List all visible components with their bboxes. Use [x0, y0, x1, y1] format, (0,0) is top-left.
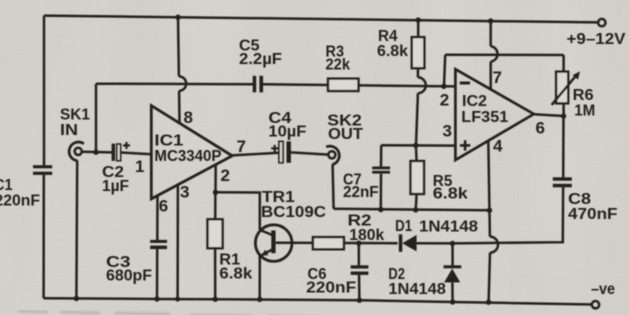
svg-text:220nF: 220nF: [0, 193, 40, 210]
wire: IC2 pin3 horizontal: [381, 144, 455, 147]
preset R6 1M: [556, 72, 568, 104]
op-amp IC2 LF351: [455, 69, 533, 160]
svg-text:OUT: OUT: [328, 126, 363, 143]
wire: C5 through R3 to IC2 pin2: [263, 84, 455, 86]
capacitor C5: [253, 76, 263, 93]
wire: output node to C8: [562, 116, 565, 177]
minus symbol of IC2: [460, 82, 470, 85]
IC2 pin numbers: [440, 68, 545, 156]
node: R5 / ground line: [413, 207, 418, 212]
wire: R1 bottom lead: [214, 248, 217, 299]
wire: feedback horizontal to R6: [445, 54, 563, 57]
svg-text:6.8k: 6.8k: [433, 185, 468, 202]
wire: C6 bottom lead: [358, 275, 361, 300]
wire: +9-12V top supply rail: [44, 16, 598, 23]
socket SK2: [328, 151, 335, 158]
IC1 pin numbers: [135, 108, 246, 216]
label R1 value: [219, 252, 252, 283]
wire: D1 to D2 node and C8 corner: [417, 187, 563, 243]
svg-text:2.2µF: 2.2µF: [239, 51, 282, 68]
svg-text:–ve: –ve: [591, 281, 615, 298]
svg-text:22k: 22k: [326, 57, 351, 74]
wire: left supply rail upper (to C1): [43, 16, 46, 166]
wire: input top horizontal to C5: [96, 82, 253, 85]
resistor R3: [328, 79, 359, 91]
label C8 value: [568, 191, 618, 223]
capacitor C2 (electrolytic): [112, 144, 116, 161]
capacitor C8: [553, 177, 572, 187]
svg-text:7: 7: [493, 68, 502, 87]
resistor R4: [417, 20, 420, 37]
svg-text:1: 1: [135, 157, 144, 176]
svg-text:2: 2: [221, 166, 230, 185]
node: output junction: [561, 113, 566, 118]
wire: IC1 pin3 drop to -ve rail: [176, 184, 179, 299]
svg-text:22nF: 22nF: [343, 184, 379, 201]
svg-text:10µF: 10µF: [268, 123, 306, 140]
terminal +9-12V: [598, 19, 605, 26]
resistor R1: [208, 219, 223, 248]
svg-text:LF351: LF351: [461, 109, 508, 126]
wire: IC1 pin8 lead from rail (with hop): [177, 17, 180, 76]
svg-text:6: 6: [536, 119, 545, 138]
node: pin2/R1/TR1 junction: [213, 190, 218, 195]
svg-text:6: 6: [159, 197, 168, 216]
capacitor C6: [351, 265, 369, 275]
capacitor C7: [380, 145, 383, 166]
wire: C6 top lead: [358, 243, 361, 265]
transistor TR1 BC109C: [255, 225, 292, 262]
capacitor C3: [150, 240, 167, 249]
label IC2 LF351: [461, 93, 508, 126]
svg-text:2: 2: [440, 91, 449, 110]
wire: left rail lower (C1 to -ve rail): [42, 175, 45, 298]
node: input junction: [93, 150, 98, 155]
wire: IC2 pin7 lead from rail (with hop): [489, 21, 492, 46]
svg-text:MC3340P: MC3340P: [154, 148, 221, 165]
node: top rail / R4: [416, 17, 421, 22]
label C6 value: [306, 266, 356, 297]
label C1 value: [0, 177, 40, 210]
svg-text:1M: 1M: [574, 102, 595, 119]
label D1 value: [395, 218, 478, 236]
svg-text:+9–12V: +9–12V: [567, 31, 626, 48]
svg-text:7: 7: [237, 137, 246, 156]
label R6 value: [573, 87, 596, 119]
socket SK1: [75, 148, 82, 155]
label C7 value: [343, 171, 379, 201]
label R2 value: [348, 213, 385, 244]
svg-text:4: 4: [493, 137, 503, 156]
wire: C4 to SK2 tip: [291, 152, 329, 154]
svg-text:IC2: IC2: [462, 93, 487, 110]
node: ground line / pin4: [487, 208, 492, 213]
wire: R6 top lead: [562, 55, 565, 72]
svg-text:D1: D1: [395, 218, 412, 235]
wire: IC1 pin6 drop to C3: [156, 196, 159, 240]
svg-text:220nF: 220nF: [306, 279, 356, 296]
label SK2 OUT: [327, 113, 363, 144]
scan artifacts at bottom edge: [18, 311, 388, 315]
junction dots on -ve rail: [74, 296, 492, 305]
label R5 value: [433, 173, 468, 202]
terminal -ve: [592, 301, 599, 308]
wire: junction to TR1 collector: [216, 192, 260, 230]
wire: C3 bottom lead: [156, 249, 159, 299]
polarity + of C2: [123, 142, 130, 149]
label R4 value: [377, 28, 408, 60]
node: top rail / pin8: [175, 15, 180, 20]
wire: -ve bottom rail: [44, 298, 593, 304]
svg-text:IN: IN: [60, 122, 78, 139]
svg-text:C1: C1: [0, 177, 13, 194]
wire: IC2 pin4 lead to -ve rail (with hop): [488, 141, 490, 237]
capacitor C1: [33, 165, 52, 175]
node: D1/D2 junction: [450, 241, 455, 246]
label C2 value: [102, 164, 129, 195]
svg-text:SK1: SK1: [60, 107, 90, 124]
wire: TR1 base to R2: [276, 241, 313, 244]
wire: SK1 tip to C2: [82, 150, 112, 153]
wire: R6 bottom lead: [562, 103, 565, 116]
label SK1 IN: [60, 107, 90, 140]
capacitor C4 (electrolytic): [279, 141, 283, 162]
svg-text:6.8k: 6.8k: [219, 266, 252, 283]
svg-text:470nF: 470nF: [568, 206, 618, 223]
label C5 value: [239, 37, 282, 68]
wire: C2 to IC1 pin1: [121, 153, 152, 155]
svg-text:180k: 180k: [349, 227, 384, 244]
wire: SK2 sleeve down and right to IC2 pin4 line: [333, 164, 334, 208]
wire: SK1 sleeve to -ve rail: [75, 161, 78, 299]
node: R4/R5/pin3 junction: [413, 143, 418, 148]
node: IC2 pin2 junction: [441, 84, 446, 89]
label IC1 MC3340P: [154, 133, 221, 165]
diode D2 1N4148: [451, 243, 454, 265]
svg-text:3: 3: [180, 183, 189, 202]
node: C7 / ground line: [378, 207, 383, 212]
resistor R5: [415, 145, 418, 161]
svg-text:1N4148: 1N4148: [388, 281, 446, 298]
wire: IC1 pin2 drop: [214, 165, 217, 193]
svg-text:1µF: 1µF: [102, 178, 129, 195]
label R3 value: [326, 44, 351, 74]
plus symbol of IC2: [460, 140, 470, 150]
wire: IC2 output pin6: [534, 114, 564, 116]
wire: input node riser: [95, 84, 98, 153]
svg-text:6.8k: 6.8k: [377, 43, 408, 60]
op-amp IC1 MC3340P: [151, 106, 232, 199]
diode D1 1N4148: [399, 234, 403, 252]
svg-text:680pF: 680pF: [106, 268, 152, 285]
svg-text:3: 3: [443, 122, 452, 141]
resistor R2: [313, 237, 344, 249]
node: top rail / pin7: [488, 18, 493, 23]
label C3 value: [106, 254, 152, 285]
wire: TR1 emitter to -ve rail: [258, 255, 261, 299]
polarity + of C4: [271, 145, 278, 152]
label C4 value: [268, 110, 306, 140]
wire: feedback riser from pin2 node: [444, 55, 445, 87]
wire: IC1 output (pin7) to C4: [232, 153, 279, 156]
svg-text:1N4148: 1N4148: [419, 219, 478, 236]
svg-text:BC109C: BC109C: [261, 204, 326, 221]
node: R2/C6/D1 junction: [356, 241, 361, 246]
label TR1 BC109C: [261, 189, 326, 221]
label D2 value: [388, 266, 446, 298]
svg-text:8: 8: [184, 108, 193, 127]
wire: R2 to D1: [344, 242, 398, 245]
wire: R1 top lead: [214, 192, 217, 219]
